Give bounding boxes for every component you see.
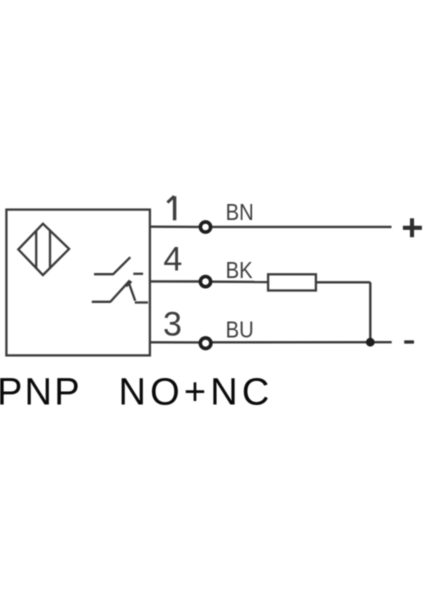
svg-text:BN: BN: [226, 199, 254, 226]
svg-text:BU: BU: [226, 316, 254, 343]
svg-text:PNP: PNP: [0, 372, 82, 414]
svg-text:NO+NC: NO+NC: [119, 372, 274, 414]
svg-text:4: 4: [163, 241, 182, 279]
svg-text:BK: BK: [226, 257, 254, 284]
svg-text:3: 3: [163, 306, 182, 344]
